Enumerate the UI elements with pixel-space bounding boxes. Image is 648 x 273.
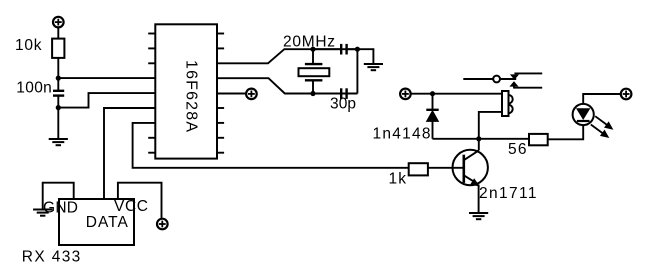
svg-text:56: 56 xyxy=(508,141,527,158)
IC right pin stubs xyxy=(217,34,224,153)
wire LED to power xyxy=(583,94,620,104)
svg-text:RX 433: RX 433 xyxy=(22,249,81,266)
wire crystal bottom to cap xyxy=(313,93,340,95)
node right rail top xyxy=(355,47,360,52)
power symbol +V at IC xyxy=(246,89,257,100)
wire RX433 DATA pin to IC pin6 xyxy=(104,108,155,199)
resistor R 10k xyxy=(52,39,64,58)
wire cap to right rail xyxy=(348,48,358,50)
LED light arrow 1 xyxy=(595,116,612,129)
wire IC OSC2 to crystal bottom xyxy=(217,78,357,93)
resistor R 1k xyxy=(409,163,428,175)
wire 56 to LED xyxy=(548,125,584,139)
wire IC OSC1 to crystal top xyxy=(217,49,357,63)
module RX433 body xyxy=(59,199,134,245)
ground below 100n xyxy=(49,139,68,145)
svg-text:10k: 10k xyxy=(15,37,42,54)
ground at transistor xyxy=(469,213,488,219)
LED light arrow 2 xyxy=(591,125,609,138)
wire cap to ground xyxy=(57,96,59,139)
relay switch lower throw xyxy=(511,82,543,88)
node crystal bottom xyxy=(310,91,315,96)
capacitor 30p top xyxy=(341,44,346,55)
svg-text:30p: 30p xyxy=(330,96,356,113)
wire IC VDD pin to power xyxy=(217,93,246,95)
svg-text:GND: GND xyxy=(43,199,78,216)
wire 1k to base xyxy=(428,167,464,169)
power symbol +V at relay xyxy=(400,89,411,100)
capacitor C 100n xyxy=(53,91,64,96)
node crystal top xyxy=(310,47,315,52)
svg-text:1k: 1k xyxy=(389,170,407,187)
relay switch pole arm xyxy=(500,78,516,80)
ground at crystal xyxy=(364,64,383,70)
wire R 10k to node xyxy=(57,58,59,91)
wire RX433 VCC pin to power xyxy=(118,183,162,219)
LED D2 xyxy=(573,104,594,125)
wire relay coil bottom to node xyxy=(479,112,502,139)
op IC U1 16F628A body xyxy=(155,24,217,158)
wire cap node to IC pin5 (VSS) xyxy=(58,93,155,108)
wire node to IC pin4 (MCLR) xyxy=(58,77,155,79)
svg-text:16F628A: 16F628A xyxy=(183,60,200,132)
wire crystal top to cap xyxy=(313,48,340,50)
node junction cap bottom xyxy=(56,105,61,110)
power symbol +V at LED xyxy=(621,89,632,100)
power symbol +V top-left xyxy=(53,17,64,28)
wire IC pin7 to base resistor xyxy=(133,123,409,168)
svg-text:100n: 100n xyxy=(16,79,52,96)
wire cap to right rail bottom xyxy=(348,93,358,95)
wire power rail to relay coil xyxy=(411,93,502,95)
IC left pin stubs xyxy=(148,34,155,153)
relay switch upper throw xyxy=(511,73,542,79)
power symbol +V at RX433 xyxy=(157,219,168,230)
svg-text:DATA: DATA xyxy=(86,214,129,231)
relay switch pole circle xyxy=(493,76,500,83)
node junction MCLR xyxy=(56,76,61,81)
node diode top xyxy=(430,91,435,96)
wire bottom rail diode to resistor 56 xyxy=(433,138,530,140)
crystal X1 xyxy=(299,49,330,93)
relay switch common wire xyxy=(463,78,493,80)
relay coil K1 xyxy=(502,91,513,116)
resistor R 56 xyxy=(529,134,548,145)
diode D1 1n4148 xyxy=(426,94,438,139)
wire right rail vertical xyxy=(356,49,358,93)
ground at RX433 xyxy=(33,210,52,216)
transistor Q1 2n1711 xyxy=(453,139,488,213)
svg-text:20MHz: 20MHz xyxy=(283,33,335,50)
wire power to R 10k xyxy=(57,28,59,39)
wire RX433 GND pin to ground xyxy=(43,183,74,210)
svg-text:VCC: VCC xyxy=(114,198,148,215)
capacitor 30p bottom xyxy=(341,88,346,99)
wire rail to ground xyxy=(357,49,373,64)
node collector junction xyxy=(476,136,481,141)
